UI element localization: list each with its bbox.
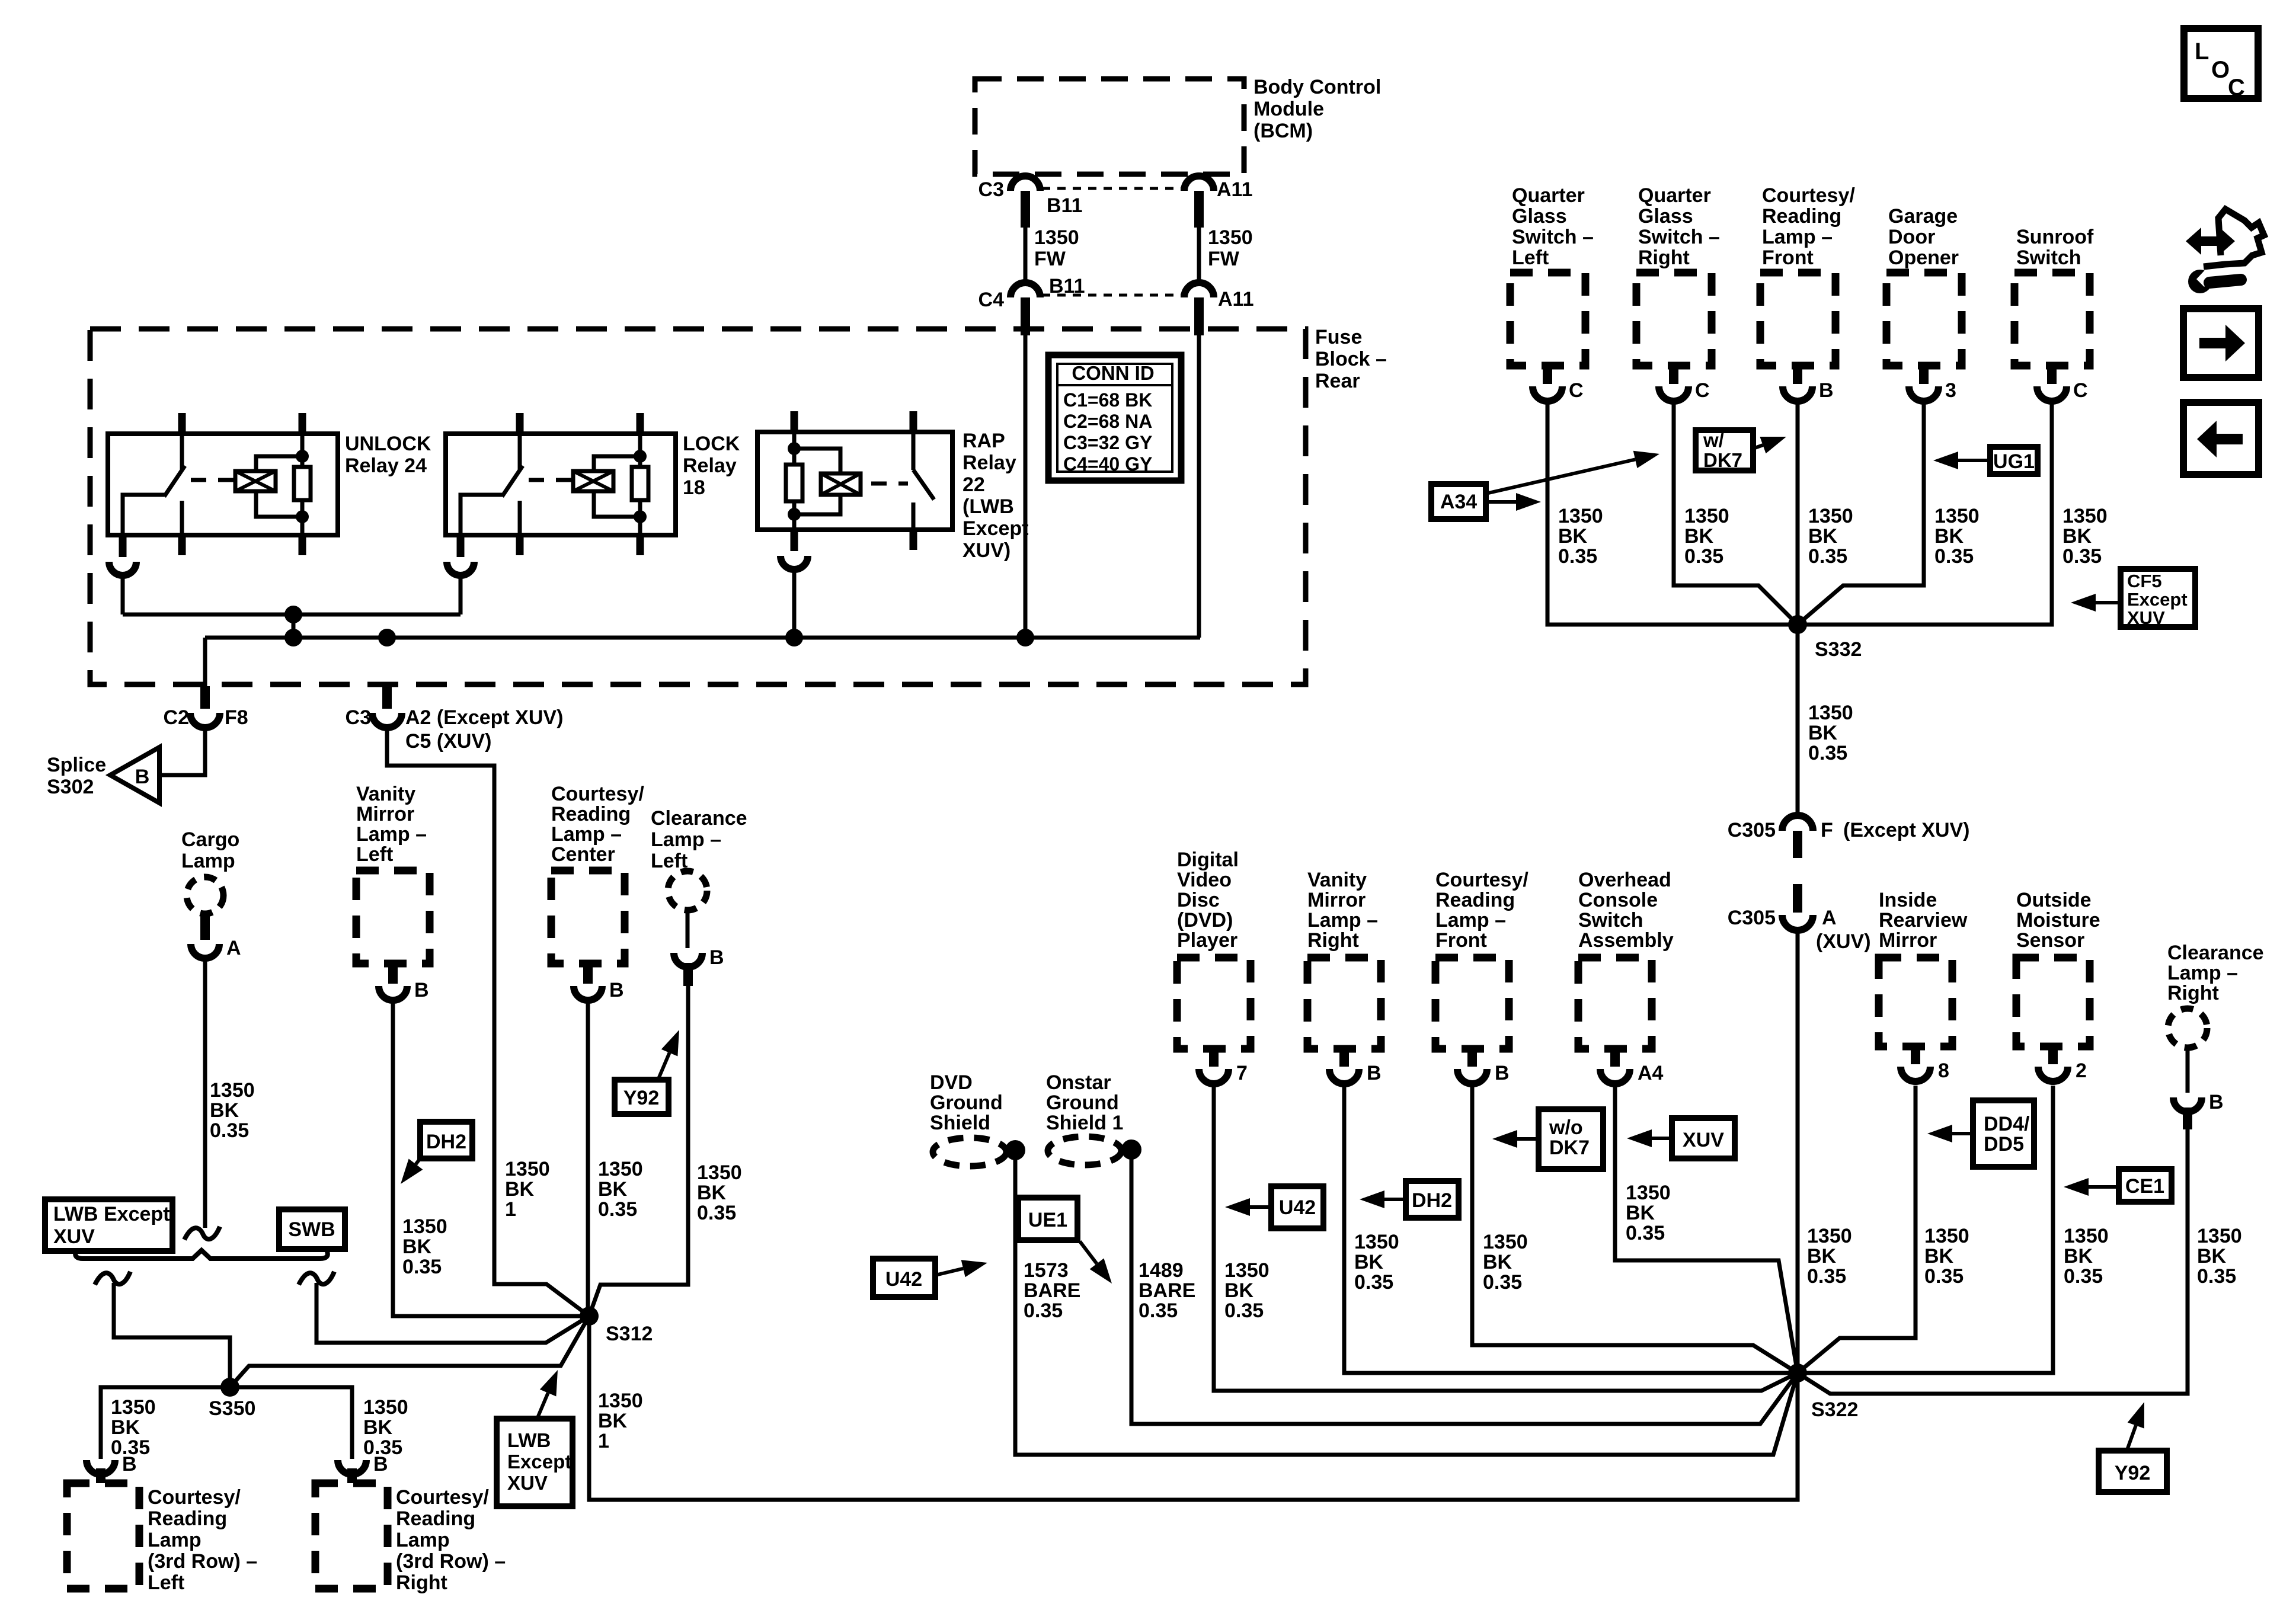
relay LOCK Relay 18 coil-resistor bracket (594, 456, 641, 517)
svg-text:C1=68 BK: C1=68 BK (1063, 389, 1152, 411)
junction S322 (1788, 1363, 1807, 1382)
svg-text:Mirror: Mirror (1307, 889, 1366, 911)
junction DVD shield dot (1005, 1140, 1025, 1160)
svg-text:C2: C2 (164, 706, 189, 729)
svg-text:0.35: 0.35 (1354, 1271, 1393, 1294)
connector B (1783, 366, 1812, 401)
wire Onstar ground shield to S322 (1131, 1150, 1798, 1424)
svg-text:Console: Console (1578, 889, 1658, 911)
wire S332 to C305 (1796, 625, 1800, 814)
lamp Cargo Lamp dashed circle (187, 877, 223, 914)
svg-text:Garage: Garage (1888, 205, 1958, 228)
svg-text:LWB Except: LWB Except (53, 1203, 170, 1225)
icon box back arrow (2183, 402, 2259, 475)
svg-text:Ground: Ground (930, 1092, 1003, 1114)
component Digital Video Disc (DVD) Player dashed box (1177, 958, 1251, 1049)
label 1573 BARE 0.35 (1024, 1259, 1080, 1322)
relay LOCK Relay 18 bottom pins (520, 535, 640, 555)
label 1350 BK 0.35 (vanity right) (1354, 1231, 1399, 1294)
svg-text:7: 7 (1236, 1062, 1248, 1084)
svg-text:(XUV): (XUV) (1816, 930, 1871, 953)
svg-text:Module: Module (1253, 98, 1324, 120)
svg-text:LOCK: LOCK (683, 433, 740, 455)
relay LOCK Relay 18 box (446, 434, 676, 535)
alternatives brace (75, 1250, 328, 1259)
pin label F (Except XUV) (1821, 819, 1970, 841)
svg-text:A2 (Except XUV): A2 (Except XUV) (405, 706, 563, 729)
svg-text:0.35: 0.35 (1808, 742, 1847, 764)
svg-text:Front: Front (1435, 929, 1487, 952)
svg-text:0.35: 0.35 (2064, 1265, 2103, 1288)
svg-text:Center: Center (551, 843, 615, 866)
component Quarter Glass Switch – Right dashed box (1636, 273, 1712, 366)
component Quarter Glass Switch – Left dashed box (1510, 273, 1585, 366)
svg-text:Mirror: Mirror (1879, 929, 1937, 952)
svg-text:LWB: LWB (507, 1429, 551, 1451)
arrow UE1 to Onstar wire (1080, 1241, 1097, 1264)
connector B (clearance left) (674, 953, 702, 986)
label Body Control Module (BCM) (1253, 76, 1381, 142)
svg-text:Switch: Switch (1578, 909, 1643, 932)
wire vanity-right to S322 (1344, 1086, 1798, 1373)
svg-text:Player: Player (1177, 929, 1237, 952)
svg-text:BK: BK (2064, 1245, 2093, 1267)
svg-text:C3: C3 (346, 706, 371, 729)
label 1350 BK 0.35 (overhead) (1626, 1182, 1671, 1244)
relay UNLOCK Relay 24 top pins (182, 413, 302, 434)
svg-text:BK: BK (505, 1178, 535, 1201)
label Overhead Console Switch Assembly (1578, 869, 1674, 952)
svg-text:BK: BK (402, 1235, 432, 1258)
svg-text:B11: B11 (1049, 275, 1085, 297)
wire DVD player to S322 (1214, 1086, 1798, 1391)
junction relay bus tee (284, 606, 302, 623)
svg-text:Y92: Y92 (623, 1087, 660, 1109)
svg-text:1: 1 (505, 1198, 516, 1221)
svg-text:Right: Right (1638, 247, 1690, 269)
svg-text:1350: 1350 (1924, 1225, 1969, 1247)
svg-text:0.35: 0.35 (1024, 1299, 1063, 1322)
wire overhead console to S322 (1615, 1086, 1798, 1373)
label Sunroof Switch (2016, 226, 2094, 269)
svg-text:Courtesy/: Courtesy/ (1762, 184, 1855, 207)
label Fuse Block - Rear (1315, 326, 1387, 392)
svg-text:Courtesy/: Courtesy/ (551, 783, 644, 805)
connector B (clearance right) (2173, 1097, 2202, 1129)
svg-text:B: B (414, 979, 429, 1001)
svg-text:w/: w/ (1703, 429, 1724, 451)
svg-text:A11: A11 (1217, 178, 1253, 201)
svg-text:BK: BK (1558, 525, 1588, 548)
svg-text:DK7: DK7 (1703, 449, 1742, 471)
arrow DH2 to vanity-right wire (1384, 1198, 1406, 1201)
svg-text:Video: Video (1177, 869, 1232, 891)
label Inside Rearview Mirror (1879, 889, 1968, 952)
svg-text:3: 3 (1945, 379, 1956, 402)
label Cargo Lamp (181, 828, 239, 872)
svg-text:Reading: Reading (551, 803, 631, 825)
svg-text:DH2: DH2 (426, 1131, 466, 1153)
svg-text:1: 1 (598, 1430, 609, 1452)
svg-text:Right: Right (396, 1571, 447, 1594)
svg-text:Switch –: Switch – (1638, 226, 1720, 248)
label 1350 FW left (1034, 226, 1079, 270)
wire courtesy-center to S312 (586, 1003, 590, 1316)
arrow CF5 to sunroof wire (2096, 601, 2121, 604)
label Vanity Mirror Lamp – Right (1307, 869, 1378, 952)
label box U42 (ground) (873, 1259, 935, 1297)
svg-text:XUV: XUV (2127, 607, 2165, 628)
arrow A34 to quarter-left wire (1486, 500, 1516, 504)
svg-text:Left: Left (356, 843, 393, 866)
arrow U42 to DVD wire (1250, 1205, 1271, 1209)
connector C2 F8 (190, 686, 220, 728)
svg-text:Sensor: Sensor (2016, 929, 2084, 952)
label 1350 BK 0.35 (3rd row right) (363, 1396, 408, 1459)
label box U42 (DVD) (1271, 1186, 1323, 1228)
arrow w/DK7 to courtesy-front wire (1753, 445, 1763, 449)
wire DVD ground shield to S322 (1015, 1150, 1798, 1455)
connector C3 A2/C5 (372, 686, 402, 728)
svg-text:Lamp –: Lamp – (1435, 909, 1506, 932)
wire break SWB branch (299, 1272, 334, 1285)
svg-text:Vanity: Vanity (356, 783, 415, 805)
svg-text:8: 8 (1938, 1060, 1949, 1082)
connector 7 (1199, 1049, 1229, 1084)
svg-text:A: A (226, 937, 241, 959)
label Courtesy/Reading Lamp (3rd Row) - Left (148, 1486, 257, 1594)
svg-text:U42: U42 (885, 1268, 922, 1291)
wire LWB branch to S350 (114, 1283, 230, 1381)
svg-text:B: B (373, 1453, 388, 1475)
label 1350 BK 0.35 (mirror) (1924, 1225, 1969, 1288)
label box w/o DK7 (1539, 1109, 1603, 1169)
relay LOCK Relay 18 coil (573, 471, 613, 491)
svg-text:Assembly: Assembly (1578, 929, 1674, 952)
svg-text:1350: 1350 (697, 1161, 742, 1184)
svg-text:S312: S312 (606, 1323, 653, 1345)
svg-text:BK: BK (111, 1416, 140, 1439)
svg-text:1350: 1350 (2064, 1225, 2109, 1247)
svg-text:BK: BK (210, 1099, 239, 1122)
svg-text:BARE: BARE (1139, 1279, 1195, 1302)
svg-text:BARE: BARE (1024, 1279, 1080, 1302)
svg-text:1350: 1350 (1224, 1259, 1269, 1282)
wire courtesy-front lamp to S322 (1472, 1086, 1798, 1373)
label Quarter Glass Switch – Left (1512, 184, 1594, 269)
svg-text:DD4/: DD4/ (1984, 1113, 2030, 1135)
arrow w/o DK7 to courtesy wire (1517, 1137, 1539, 1141)
label 1350 BK 0.35 (clearance right) (2197, 1225, 2242, 1288)
wire relay connector bus (123, 614, 461, 638)
svg-text:Cargo: Cargo (181, 828, 239, 851)
wire BCM-C4 into fuse block (1024, 335, 1028, 638)
svg-text:Mirror: Mirror (356, 803, 414, 825)
connector B (vanity left) (379, 964, 407, 1000)
svg-text:S302: S302 (47, 776, 94, 798)
svg-text:0.35: 0.35 (1934, 545, 1974, 568)
label 1350 BK 1 (fuse wire) (505, 1158, 550, 1221)
label Courtesy/Reading Lamp (3rd Row) - Right (396, 1486, 506, 1594)
svg-text:Reading: Reading (1762, 205, 1841, 228)
svg-text:1350: 1350 (1626, 1182, 1671, 1204)
connector 2 (2038, 1046, 2068, 1081)
connector A4 (1600, 1049, 1630, 1084)
svg-text:A34: A34 (1440, 491, 1477, 513)
relay UNLOCK Relay 24 resistor (294, 434, 311, 535)
label 1350 BK 0.35 (moisture) (2064, 1225, 2109, 1288)
svg-text:BK: BK (2197, 1245, 2227, 1267)
svg-text:B: B (122, 1453, 137, 1475)
arrow Y92 to clearance wire (659, 1053, 670, 1077)
svg-text:Y92: Y92 (2115, 1462, 2151, 1484)
connector row C3/B11 dotted line (1042, 187, 1182, 190)
svg-text:1350: 1350 (2197, 1225, 2242, 1247)
label Clearance Lamp - Right (2167, 942, 2264, 1004)
svg-text:Reading: Reading (396, 1507, 475, 1530)
svg-text:Lamp –: Lamp – (1762, 226, 1833, 248)
svg-text:S332: S332 (1815, 638, 1862, 661)
connector C (1533, 366, 1562, 401)
component Outside Moisture Sensor dashed box (2016, 958, 2090, 1046)
connector BCM C3 (left dome) (1011, 176, 1040, 228)
svg-text:C: C (2228, 75, 2245, 101)
label 1350 BK 0.35 (courtesy front) (1483, 1231, 1528, 1294)
svg-text:Lamp –: Lamp – (651, 828, 721, 851)
label Clearance Lamp - Left (651, 807, 747, 872)
svg-text:BK: BK (1807, 1245, 1837, 1267)
svg-text:Except: Except (507, 1451, 571, 1473)
svg-text:Relay 24: Relay 24 (345, 454, 427, 477)
svg-text:C: C (1569, 379, 1584, 402)
relay RAP connector pin (781, 530, 808, 638)
svg-text:Clearance: Clearance (2167, 942, 2264, 964)
junction S332 (1788, 615, 1807, 634)
svg-text:0.35: 0.35 (1224, 1299, 1264, 1322)
svg-text:0.35: 0.35 (2197, 1265, 2236, 1288)
svg-text:B: B (709, 946, 724, 969)
wire 1350 FW right (A11 to A11) (1197, 228, 1201, 282)
svg-text:18: 18 (683, 476, 705, 499)
label Splice S302 (47, 754, 106, 798)
connector fuse block A11 (right dome, lower) (1184, 283, 1214, 335)
svg-text:1350: 1350 (1354, 1231, 1399, 1253)
relay LOCK Relay 18 coil link dashes (529, 478, 573, 482)
label 1350 BK 0.35 (DVD) (1224, 1259, 1269, 1322)
label box LWB Except XUV (S312) (497, 1419, 573, 1506)
icon component-view (double arrow, outline, wrench) (2186, 209, 2264, 293)
component Courtesy/ Reading Lamp – Front dashed box (1435, 958, 1509, 1049)
wire clearance-left lamp lead (686, 910, 690, 948)
svg-text:0.35: 0.35 (598, 1198, 637, 1221)
svg-text:1350: 1350 (1808, 702, 1853, 724)
connector B (1329, 1049, 1359, 1084)
svg-text:A4: A4 (1638, 1062, 1664, 1084)
wire 1350 FW left (C3 to C4) (1024, 228, 1028, 282)
shield Onstar Ground Shield 1 dashed ellipse (1048, 1137, 1121, 1165)
wire garage door opener to S332 (1798, 403, 1924, 625)
connector row C4/B11 dotted line (1042, 294, 1182, 297)
relay RAP coil-resistor bracket (794, 449, 840, 514)
svg-text:FW: FW (1208, 248, 1240, 270)
svg-text:Courtesy/: Courtesy/ (148, 1486, 241, 1509)
wire SWB branch to S312 (316, 1283, 589, 1343)
svg-text:C2=68 NA: C2=68 NA (1063, 411, 1152, 432)
junction S350 (220, 1378, 239, 1397)
wire S350 to S312 (230, 1316, 589, 1387)
wire break LWB branch (95, 1272, 130, 1285)
component Inside Rearview Mirror dashed box (1879, 958, 1952, 1046)
lamp Vanity Mirror Lamp - Left dashed box (356, 870, 430, 964)
svg-text:(LWB: (LWB (962, 495, 1014, 518)
svg-text:F: F (1821, 819, 1833, 841)
svg-text:0.35: 0.35 (1626, 1222, 1665, 1244)
svg-text:1573: 1573 (1024, 1259, 1069, 1282)
svg-text:1350: 1350 (2062, 505, 2108, 527)
label box DD4/DD5 (1973, 1100, 2034, 1167)
svg-text:CE1: CE1 (2125, 1175, 2164, 1198)
label Courtesy/ Reading Lamp – Front (1762, 184, 1855, 269)
fuse block Rear dashed outline (90, 329, 1306, 684)
arrow CE1 to moisture wire (2089, 1185, 2119, 1189)
svg-text:Vanity: Vanity (1307, 869, 1367, 891)
svg-text:XUV: XUV (507, 1472, 548, 1494)
relay UNLOCK Relay 24 connector pin (109, 535, 136, 614)
svg-text:C3=32 GY: C3=32 GY (1063, 432, 1152, 453)
svg-text:1350: 1350 (598, 1390, 643, 1412)
relay RAP coil link dashes (871, 482, 908, 486)
svg-text:1350: 1350 (1558, 505, 1603, 527)
svg-text:Switch –: Switch – (1512, 226, 1594, 248)
lamp Courtesy/Reading Lamp (3rd Row) - Right dashed box (315, 1483, 388, 1589)
svg-text:DK7: DK7 (1549, 1137, 1590, 1159)
connector C (1659, 366, 1689, 401)
module Body Control Module (BCM) dashed box (975, 79, 1244, 174)
svg-text:Lamp: Lamp (148, 1529, 202, 1551)
svg-text:SWB: SWB (288, 1218, 335, 1241)
relay RAP resistor (786, 432, 802, 530)
junction RAP drop (785, 629, 803, 646)
arrow Y92 to bottom wire (2128, 1426, 2136, 1448)
relay UNLOCK Relay 24 coil (235, 471, 276, 491)
svg-text:Sunroof: Sunroof (2016, 226, 2094, 248)
label box UG1 (1990, 447, 2038, 474)
svg-text:Glass: Glass (1638, 205, 1693, 228)
svg-text:B: B (1495, 1062, 1510, 1084)
table CONN ID (1048, 355, 1181, 481)
component Sunroof Switch dashed box (2014, 273, 2090, 366)
relay UNLOCK Relay 24 switch (123, 434, 185, 535)
svg-text:C305: C305 (1728, 907, 1776, 929)
connector 3 (1909, 366, 1939, 401)
svg-text:DVD: DVD (930, 1071, 973, 1094)
label Digital Video Disc (DVD) Player (1177, 849, 1239, 952)
label 1350 BK 0.35 (quarter left) (1558, 505, 1603, 568)
svg-text:(BCM): (BCM) (1253, 120, 1313, 142)
label 1350 BK 0.35 (3rd row left) (111, 1396, 156, 1459)
svg-text:0.35: 0.35 (210, 1119, 249, 1142)
svg-text:BK: BK (1924, 1245, 1954, 1267)
label box SWB (279, 1209, 345, 1249)
svg-text:Reading: Reading (148, 1507, 227, 1530)
svg-text:1350: 1350 (505, 1158, 550, 1180)
connector B (3rd row right) (338, 1460, 366, 1483)
svg-text:RAP: RAP (962, 430, 1005, 452)
svg-text:0.35: 0.35 (697, 1202, 736, 1224)
svg-text:1350: 1350 (598, 1158, 643, 1180)
svg-text:Onstar: Onstar (1046, 1071, 1111, 1094)
svg-text:0.35: 0.35 (1483, 1271, 1522, 1294)
wire clearance-left to S312 (589, 986, 688, 1316)
wire sunroof to S332 (1798, 403, 2052, 625)
arrow DD4/DD5 to mirror wire (1952, 1132, 1973, 1135)
arrow LWB Except XUV to wire (538, 1393, 548, 1416)
relay UNLOCK Relay 24 bottom pins (182, 535, 302, 555)
shield DVD Ground Shield dashed ellipse (933, 1138, 1006, 1166)
pin label A (XUV) (1816, 907, 1871, 953)
svg-text:Except: Except (2127, 589, 2188, 610)
relay RAP Relay 22 box (757, 432, 952, 530)
component Vanity Mirror Lamp – Right dashed box (1307, 958, 1381, 1049)
svg-text:S322: S322 (1811, 1398, 1858, 1421)
arrow XUV to overhead wire (1652, 1137, 1672, 1140)
svg-text:Right: Right (2167, 982, 2219, 1004)
svg-text:BK: BK (1808, 722, 1838, 744)
label box CF5 Except XUV (2121, 569, 2195, 628)
svg-text:Lamp –: Lamp – (356, 823, 427, 846)
connector B (courtesy center) (574, 964, 602, 1000)
pin label A2 (Except XUV) / C5 (XUV) (405, 706, 563, 753)
svg-text:BK: BK (598, 1410, 628, 1432)
wire clearance-right to S322 (1798, 1129, 2188, 1394)
svg-text:Door: Door (1888, 226, 1935, 248)
label 1350 BK 0.35 (quarter right) (1684, 505, 1729, 568)
label 1350 BK 0.35 (courtesy front top) (1808, 505, 1853, 568)
relay LOCK Relay 18 resistor (632, 434, 648, 535)
svg-text:FW: FW (1034, 248, 1066, 270)
svg-text:Relay: Relay (962, 452, 1016, 474)
svg-text:Switch: Switch (2016, 247, 2081, 269)
label Outside Moisture Sensor (2016, 889, 2100, 952)
label 1350 BK 0.35 (S332 output) (1808, 702, 1853, 764)
svg-text:(Except XUV): (Except XUV) (1843, 819, 1970, 841)
svg-text:0.35: 0.35 (1807, 1265, 1846, 1288)
svg-text:BK: BK (1808, 525, 1838, 548)
label UNLOCK Relay 24 (345, 433, 431, 477)
svg-text:UG1: UG1 (1993, 450, 2035, 473)
label box CE1 (2119, 1169, 2172, 1202)
svg-text:Glass: Glass (1512, 205, 1567, 228)
label 1350 BK 0.35 (clearance left) (697, 1161, 742, 1224)
label box Y92 (right) (2099, 1451, 2167, 1492)
svg-text:Courtesy/: Courtesy/ (396, 1486, 489, 1509)
lamp Clearance Lamp - Left dashed circle (668, 871, 707, 910)
arrow U42 to DVD ground wire (935, 1269, 963, 1275)
svg-text:0.35: 0.35 (1924, 1265, 1964, 1288)
svg-text:B: B (135, 766, 150, 788)
wire cargo lamp down (203, 960, 207, 1228)
svg-text:Left: Left (148, 1571, 184, 1594)
svg-text:Body Control: Body Control (1253, 76, 1381, 98)
component Garage Door Opener dashed box (1886, 273, 1962, 366)
svg-text:1350: 1350 (363, 1396, 408, 1419)
connector C305 A half (1782, 884, 1813, 930)
arrow UG1 to garage wire (1958, 459, 1990, 462)
svg-text:(3rd Row) –: (3rd Row) – (396, 1550, 506, 1573)
svg-text:BK: BK (1684, 525, 1714, 548)
wire S312 down and to S322 (589, 1316, 1798, 1500)
svg-text:B: B (1819, 379, 1834, 402)
